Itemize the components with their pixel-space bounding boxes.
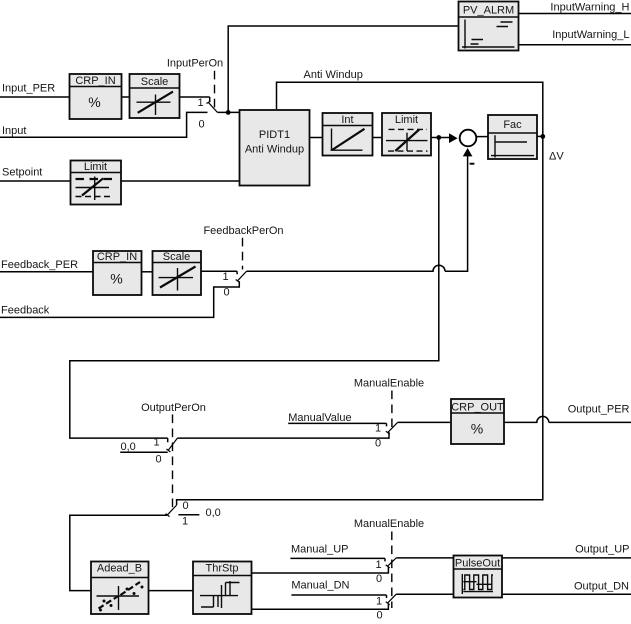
svg-text:Manual_DN: Manual_DN [291, 580, 349, 592]
svg-text:OutputPerOn: OutputPerOn [141, 402, 206, 414]
wire CRP_OUT to Output_PER with hop [504, 416, 631, 422]
svg-text:Feedback_PER: Feedback_PER [1, 259, 78, 271]
wire feedback of output down-left rail [70, 138, 439, 443]
svg-text:CRP_IN: CRP_IN [97, 251, 137, 263]
switch wiper FeedbackPerOn [236, 271, 247, 282]
wire feedback switch to subtractor with hop [247, 156, 468, 271]
wire InputWarning_H [519, 13, 631, 15]
svg-text:Setpoint: Setpoint [2, 167, 42, 179]
block CRP_OUT [451, 399, 504, 444]
node dV [540, 134, 545, 139]
svg-text:InputWarning_H: InputWarning_H [550, 2, 629, 14]
svg-text:Limit: Limit [395, 114, 418, 126]
svg-text:0: 0 [376, 573, 382, 585]
wire Manual_UP [290, 558, 385, 561]
wire switch to ManualValue switch [177, 432, 389, 438]
wire InputWarning_L [519, 44, 631, 46]
svg-text:ΔV: ΔV [549, 151, 564, 163]
summing circle [460, 130, 477, 147]
node at Limit output [436, 135, 441, 140]
svg-text:0: 0 [198, 119, 204, 131]
wire ThrStp upper output to switch 0 [252, 567, 389, 573]
wire Feedback_PER to CRP_IN [0, 271, 93, 273]
wire Input_PER to CRP_IN [0, 96, 70, 98]
wire CRP_IN to Scale feedback [142, 271, 153, 273]
switch wiper Manual_UP [386, 558, 397, 568]
svg-text:Output_DN: Output_DN [574, 581, 629, 593]
wire Scale to feedback switch input 1 [201, 271, 237, 274]
svg-text:0: 0 [223, 287, 229, 299]
wire Scale to switch input 1 [180, 97, 210, 101]
svg-text:PulseOut: PulseOut [455, 558, 500, 570]
svg-text:ManualEnable: ManualEnable [354, 378, 424, 390]
dashed line FeedbackPerOn [242, 238, 244, 270]
svg-text:Scale: Scale [141, 76, 169, 88]
svg-text:1: 1 [222, 271, 228, 283]
block Limit setpoint [71, 161, 122, 205]
wire constant 0,0 lower [178, 514, 199, 516]
dashed line ManualEnable upper [391, 391, 393, 428]
svg-text:Int: Int [341, 114, 353, 126]
svg-text:PIDT1: PIDT1 [259, 129, 290, 141]
svg-text:CRP_IN: CRP_IN [75, 75, 115, 87]
wire Adead_B to ThrStp [149, 590, 194, 592]
wire switch to PIDT1 [217, 111, 239, 113]
wire PIDT1 to Int [310, 137, 323, 139]
minus sign [470, 163, 475, 165]
svg-text:%: % [471, 421, 483, 437]
block PIDT1 Anti Windup [240, 110, 310, 186]
svg-text:Feedback: Feedback [1, 305, 50, 317]
svg-text:1: 1 [153, 437, 159, 449]
svg-text:ManualValue: ManualValue [288, 412, 351, 424]
block Adead_B [91, 562, 149, 615]
svg-text:1: 1 [375, 559, 381, 571]
block ThrStp [193, 562, 252, 615]
svg-text:FeedbackPerOn: FeedbackPerOn [203, 225, 283, 237]
wire Setpoint to Limit [0, 180, 71, 182]
svg-text:Anti Windup: Anti Windup [245, 143, 304, 155]
svg-text:1: 1 [182, 516, 188, 528]
svg-text:%: % [88, 94, 100, 110]
arrow minus input below circle [463, 148, 473, 156]
wire CRP_IN to Scale [122, 96, 130, 98]
svg-text:PV_ALRM: PV_ALRM [463, 5, 514, 17]
svg-text:0: 0 [182, 500, 188, 512]
switch wiper Manual_DN [386, 594, 397, 605]
dashed line ManualEnable lower [391, 532, 393, 609]
svg-text:Input: Input [2, 125, 26, 137]
svg-text:Input_PER: Input_PER [2, 83, 55, 95]
wire Limit to PIDT1 [121, 180, 239, 182]
wire Input to switch input 0 [0, 112, 208, 137]
svg-text:Limit: Limit [84, 161, 107, 173]
wire Int to Limit [373, 137, 383, 139]
svg-text:1: 1 [197, 97, 203, 109]
wire anti windup loop [177, 82, 543, 505]
block Limit after Int [382, 113, 431, 156]
svg-text:ThrStp: ThrStp [205, 563, 238, 575]
block Scale feedback [153, 251, 202, 295]
wire Fac to node dV [537, 135, 543, 137]
switch wiper OutputPerOn lower [166, 505, 177, 516]
svg-text:InputPerOn: InputPerOn [167, 58, 223, 70]
wire switch to CRP_OUT [398, 421, 451, 423]
svg-text:Manual_UP: Manual_UP [291, 544, 348, 556]
svg-text:ManualEnable: ManualEnable [354, 518, 424, 530]
switch wiper ManualEnable [386, 422, 398, 434]
wire to Output_DN [396, 593, 631, 595]
svg-text:0: 0 [375, 438, 381, 450]
svg-text:Output_PER: Output_PER [568, 404, 630, 416]
switch wiper InputPerOn [207, 101, 218, 112]
svg-text:0: 0 [155, 454, 161, 466]
wire to Output_UP [396, 557, 631, 559]
dashed line InputPerOn [214, 71, 216, 108]
svg-text:1: 1 [376, 595, 382, 607]
svg-text:InputWarning_L: InputWarning_L [552, 29, 629, 41]
block PV_ALRM [459, 2, 519, 51]
block CRP_IN input [70, 74, 122, 119]
block Fac [488, 115, 537, 159]
svg-text:CRP_OUT: CRP_OUT [451, 402, 504, 414]
svg-text:0,0: 0,0 [206, 507, 221, 519]
wire ThrStp lower output to switch 0 [252, 603, 389, 609]
wire node up to PV_ALRM [228, 26, 458, 112]
wire Feedback to switch input 0 [0, 281, 239, 317]
wire ManualValue [288, 423, 386, 426]
wire Manual_DN [291, 595, 386, 598]
block CRP_IN feedback [93, 251, 142, 295]
dashed line OutputPerOn [172, 415, 174, 510]
block Int [323, 113, 373, 156]
svg-text:Scale: Scale [163, 251, 191, 263]
svg-text:1: 1 [375, 423, 381, 435]
wire circle to Fac [476, 136, 488, 138]
block Scale input [130, 74, 180, 118]
switch wiper OutputPerOn upper [166, 438, 177, 452]
wire Limit to summing point [431, 137, 450, 139]
svg-text:Output_UP: Output_UP [575, 544, 629, 556]
svg-text:0,0: 0,0 [121, 441, 136, 453]
block PulseOut [454, 556, 503, 598]
svg-text:Adead_B: Adead_B [97, 563, 142, 575]
svg-text:0: 0 [376, 610, 382, 622]
svg-text:Anti Windup: Anti Windup [304, 69, 363, 81]
svg-text:Fac: Fac [503, 119, 522, 131]
wire lower switch output to Adead_B [70, 515, 167, 590]
node at switch output [226, 110, 231, 115]
arrow into summing circle left [449, 133, 458, 143]
wire constant 0,0 upper [120, 451, 168, 453]
svg-text:%: % [110, 271, 122, 287]
